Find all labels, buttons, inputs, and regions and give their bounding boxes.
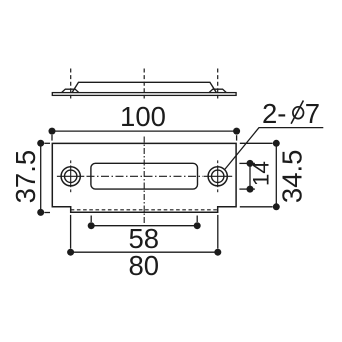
svg-text:100: 100 — [120, 101, 166, 132]
dimension 34.5 — [240, 140, 280, 211]
hole right outer — [208, 167, 227, 186]
slot — [91, 163, 198, 189]
dimension 37.5 — [37, 140, 50, 216]
svg-text:14: 14 — [249, 161, 274, 186]
top view right screw bump — [209, 89, 226, 92]
hole left inner — [65, 170, 77, 182]
plate outline front view — [52, 143, 236, 212]
dimension 100 — [49, 128, 241, 141]
top view center line left hole — [70, 69, 72, 99]
svg-text:2-: 2- — [262, 98, 286, 129]
top view raised plateau — [72, 82, 216, 92]
dimension 14 — [239, 160, 255, 193]
svg-text:7: 7 — [305, 98, 320, 129]
phi symbol slash — [291, 101, 303, 124]
hidden bend line dashed — [71, 209, 218, 211]
hole right crosshair vertical — [217, 160, 219, 192]
svg-text:80: 80 — [129, 250, 160, 281]
hole left outer — [61, 167, 80, 186]
top view base bar — [52, 93, 236, 96]
svg-text:37.5: 37.5 — [10, 150, 41, 204]
hole left crosshair vertical — [70, 160, 72, 192]
dimension 80 — [67, 215, 221, 256]
top view center line middle — [143, 69, 145, 99]
dimension 58 — [88, 216, 201, 230]
phi symbol circle — [293, 107, 304, 119]
top view center line right hole — [217, 69, 219, 99]
vertical center line — [143, 137, 145, 224]
horizontal center line — [57, 175, 232, 177]
svg-text:34.5: 34.5 — [276, 150, 307, 204]
leader line for 2-phi7 — [225, 128, 323, 170]
top view left screw bump — [62, 89, 79, 92]
hole right inner — [212, 170, 224, 182]
